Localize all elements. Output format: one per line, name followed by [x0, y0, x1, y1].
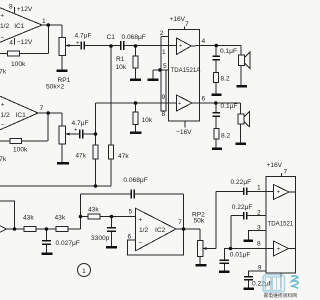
svg-text:9: 9	[162, 94, 166, 101]
svg-text:4.7μF: 4.7μF	[72, 120, 89, 127]
svg-text:43k: 43k	[23, 214, 34, 221]
svg-text:4: 4	[9, 40, 13, 47]
svg-text:8: 8	[257, 241, 261, 248]
svg-text:8: 8	[162, 111, 166, 118]
svg-text:−: −	[1, 122, 5, 129]
svg-text:0.01μF: 0.01μF	[230, 251, 251, 258]
svg-text:0.1μF: 0.1μF	[220, 48, 237, 55]
svg-text:C1: C1	[107, 34, 116, 41]
svg-text:5: 5	[163, 63, 167, 70]
svg-text:IC2: IC2	[155, 227, 166, 234]
svg-text:1/2: 1/2	[1, 112, 10, 119]
svg-text:TDA1521: TDA1521	[268, 221, 294, 228]
svg-text:8.2: 8.2	[221, 133, 230, 140]
svg-text:+: +	[277, 189, 281, 195]
svg-text:47k: 47k	[118, 153, 129, 160]
svg-text:0.068μF: 0.068μF	[122, 34, 146, 41]
svg-text:−12V: −12V	[17, 39, 33, 46]
svg-text:−: −	[139, 240, 143, 247]
svg-text:1: 1	[162, 49, 166, 56]
svg-text:0.1μF: 0.1μF	[221, 103, 238, 110]
svg-text:10k: 10k	[116, 64, 127, 71]
svg-text:1: 1	[42, 18, 46, 25]
svg-text:10k: 10k	[142, 117, 153, 124]
svg-text:47k: 47k	[0, 156, 7, 163]
svg-text:IC1: IC1	[14, 23, 25, 30]
svg-text:8: 8	[9, 4, 13, 11]
svg-text:0.068μF: 0.068μF	[123, 177, 147, 184]
svg-text:1/2: 1/2	[139, 227, 148, 234]
svg-text:6: 6	[202, 96, 206, 103]
svg-text:+12V: +12V	[17, 6, 33, 13]
svg-text:0.22μF: 0.22μF	[232, 204, 253, 211]
svg-text:3: 3	[257, 225, 261, 232]
svg-text:0.027μF: 0.027μF	[56, 240, 80, 247]
svg-text:2: 2	[160, 30, 164, 37]
svg-text:0.22μF: 0.22μF	[231, 179, 252, 186]
svg-text:3300p: 3300p	[91, 235, 110, 242]
svg-text:−: −	[1, 35, 5, 42]
svg-text:7: 7	[284, 169, 288, 176]
svg-text:6: 6	[128, 234, 132, 241]
svg-text:5: 5	[129, 209, 133, 216]
svg-text:50k: 50k	[194, 217, 205, 224]
svg-text:7: 7	[178, 219, 182, 226]
svg-text:1: 1	[257, 185, 261, 192]
svg-text:+16V: +16V	[170, 16, 186, 23]
svg-text:47k: 47k	[0, 69, 7, 76]
svg-text:100k: 100k	[11, 61, 26, 68]
svg-text:+: +	[1, 102, 5, 109]
svg-text:9: 9	[258, 265, 262, 272]
svg-text:+: +	[0, 13, 4, 20]
svg-text:50k×2: 50k×2	[46, 83, 64, 90]
svg-text:家电维修资料网: 家电维修资料网	[264, 292, 298, 299]
svg-text:−16V: −16V	[176, 129, 192, 136]
svg-text:1: 1	[82, 268, 86, 275]
svg-text:2: 2	[257, 210, 261, 217]
svg-text:47k: 47k	[75, 153, 86, 160]
svg-text:4: 4	[202, 38, 206, 45]
svg-text:7: 7	[185, 21, 189, 28]
svg-text:8.2: 8.2	[221, 76, 230, 83]
svg-text:1/2: 1/2	[0, 23, 9, 30]
svg-text:IC1: IC1	[16, 112, 27, 119]
svg-text:4.7μF: 4.7μF	[75, 33, 92, 40]
svg-text:100k: 100k	[13, 147, 28, 154]
svg-text:TDA1521A: TDA1521A	[171, 67, 202, 74]
svg-text:R1: R1	[116, 56, 125, 63]
svg-text:7: 7	[40, 105, 44, 112]
svg-text:43k: 43k	[88, 207, 99, 214]
svg-text:+: +	[139, 217, 143, 224]
svg-text:43k: 43k	[55, 214, 66, 221]
svg-text:+16V: +16V	[267, 162, 283, 169]
